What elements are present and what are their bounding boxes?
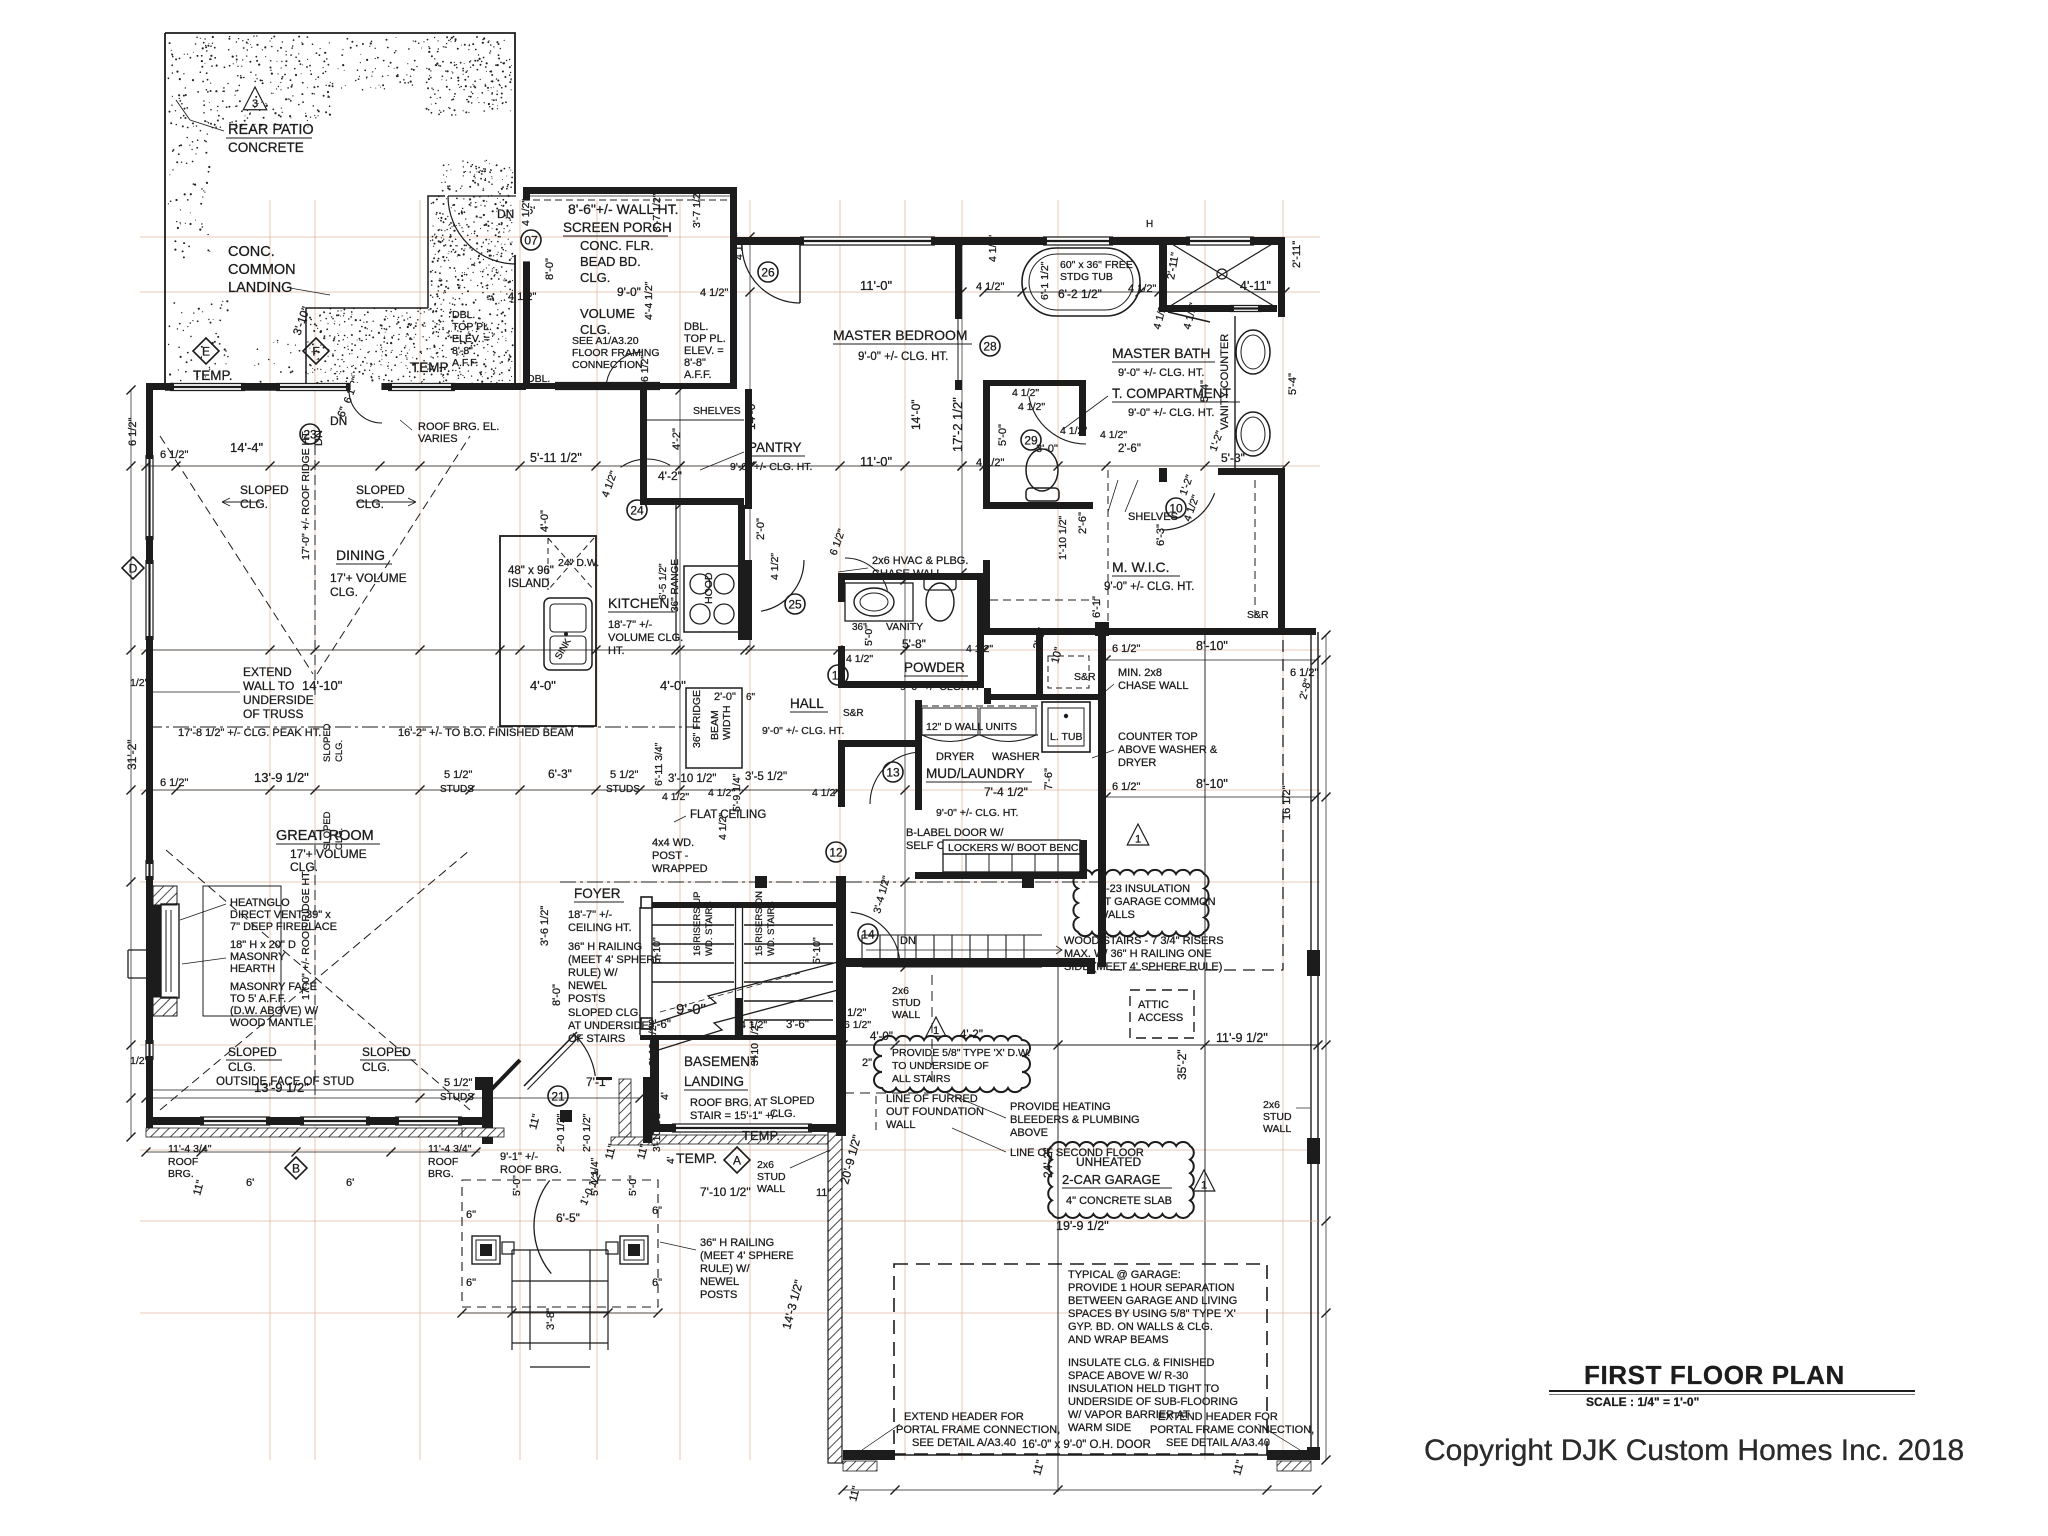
svg-text:3: 3 — [252, 98, 258, 110]
walls hall-powder — [838, 573, 984, 580]
svg-text:SLOPED: SLOPED — [770, 1095, 815, 1107]
svg-text:SLOPED CLG.: SLOPED CLG. — [568, 1007, 641, 1019]
svg-text:4 1/2": 4 1/2" — [966, 643, 993, 655]
porch posts — [472, 1236, 500, 1264]
svg-text:4 1/2": 4 1/2" — [987, 235, 999, 262]
svg-text:2'-11": 2'-11" — [1291, 241, 1303, 268]
svg-text:6": 6" — [652, 1205, 662, 1217]
door: hall to master — [761, 560, 804, 611]
wall: screen porch — [523, 187, 737, 194]
svg-text:4 1/2": 4 1/2" — [1012, 387, 1039, 399]
svg-text:6'-5 1/2": 6'-5 1/2" — [658, 563, 669, 600]
svg-text:F: F — [312, 345, 319, 359]
fixture: freestanding tub — [1022, 248, 1140, 316]
svg-text:16 1/2": 16 1/2" — [1281, 785, 1293, 820]
svg-text:HEATNGLO: HEATNGLO — [230, 897, 290, 909]
svg-text:11'-4 3/4": 11'-4 3/4" — [168, 1143, 212, 1155]
door 21 — [548, 1086, 568, 1106]
svg-text:WALLS: WALLS — [1098, 909, 1135, 921]
svg-text:4 1/2": 4 1/2" — [846, 653, 873, 665]
porch steps — [511, 1250, 513, 1350]
svg-text:18'-7" +/-: 18'-7" +/- — [608, 619, 653, 631]
svg-text:LOCKERS W/ BOOT BENCH: LOCKERS W/ BOOT BENCH — [948, 842, 1086, 854]
svg-text:RULE) W/: RULE) W/ — [700, 1263, 750, 1275]
svg-text:B-LABEL DOOR W/: B-LABEL DOOR W/ — [906, 827, 1004, 839]
svg-text:OF TRUSS: OF TRUSS — [243, 707, 303, 721]
svg-text:CLG.: CLG. — [770, 1108, 796, 1120]
svg-text:WARM SIDE: WARM SIDE — [1068, 1422, 1131, 1434]
svg-text:SPACE ABOVE W/ R-30: SPACE ABOVE W/ R-30 — [1068, 1370, 1188, 1382]
svg-text:WASHER: WASHER — [992, 751, 1040, 763]
svg-text:DN: DN — [900, 935, 916, 947]
svg-text:9'-0" +/- CLG. HT.: 9'-0" +/- CLG. HT. — [858, 351, 948, 363]
svg-text:DBL.: DBL. — [684, 321, 708, 333]
dashed furred foundation line — [875, 1096, 877, 1134]
svg-text:STAIR = 15'-1" +/-: STAIR = 15'-1" +/- — [690, 1110, 779, 1122]
garage construction verticals — [1057, 967, 1059, 1455]
svg-text:DBL.: DBL. — [527, 373, 550, 385]
svg-text:STUD: STUD — [892, 997, 921, 1009]
wall: right block top (8-10 step) — [1100, 628, 1316, 635]
hatched sill below front wall — [146, 1128, 491, 1137]
patio landing door arc — [448, 196, 516, 264]
shower door — [1168, 312, 1210, 322]
left vertical dim line — [130, 390, 132, 1137]
svg-text:11'-0": 11'-0" — [860, 454, 893, 469]
svg-text:36" FRIDGE: 36" FRIDGE — [691, 690, 703, 748]
svg-text:9'-0" +/- CLG. HT.: 9'-0" +/- CLG. HT. — [936, 807, 1018, 819]
svg-text:TEMP.: TEMP. — [411, 360, 451, 375]
misc ticks rows — [146, 789, 840, 791]
svg-text:8'-10": 8'-10" — [1196, 777, 1228, 791]
fixture: washer dryer + wall units — [921, 705, 1038, 707]
door powder — [845, 558, 888, 591]
svg-text:ROOF: ROOF — [168, 1156, 198, 1168]
svg-text:2x6: 2x6 — [1263, 1099, 1280, 1111]
svg-text:NEWEL: NEWEL — [700, 1276, 739, 1288]
svg-text:SEE A1/A3.20: SEE A1/A3.20 — [572, 335, 639, 347]
svg-text:L. TUB: L. TUB — [1050, 731, 1082, 743]
angled entry wall left — [489, 1060, 520, 1092]
svg-text:4'-4 1/2": 4'-4 1/2" — [643, 281, 655, 320]
svg-text:13'-9 1/2": 13'-9 1/2" — [254, 770, 309, 785]
porch dashed outline — [462, 1180, 658, 1307]
svg-text:3'-10 1/2": 3'-10 1/2" — [652, 1109, 663, 1152]
svg-text:HALL: HALL — [790, 696, 824, 711]
svg-text:NEWEL: NEWEL — [568, 980, 607, 992]
svg-text:2'-6": 2'-6" — [1118, 443, 1141, 455]
svg-text:OUT FOUNDATION: OUT FOUNDATION — [886, 1106, 984, 1118]
svg-text:3'-6": 3'-6" — [648, 1019, 671, 1031]
wall: bath south right — [1218, 468, 1285, 475]
svg-text:WOOD MANTLE: WOOD MANTLE — [230, 1017, 313, 1029]
svg-text:SLOPED: SLOPED — [362, 1045, 411, 1059]
svg-text:WALL: WALL — [1263, 1123, 1291, 1135]
svg-text:6': 6' — [246, 1177, 254, 1189]
svg-text:RULE) W/: RULE) W/ — [568, 967, 618, 979]
svg-text:DINING: DINING — [336, 547, 385, 563]
svg-text:1: 1 — [933, 1025, 939, 1037]
wall: MWIC east — [1278, 470, 1285, 635]
label: REAR PATIO / CONCRETE — [243, 87, 266, 110]
svg-text:28: 28 — [983, 340, 997, 354]
svg-text:6 1/2": 6 1/2" — [127, 418, 139, 446]
svg-text:VANITY COUNTER: VANITY COUNTER — [1219, 334, 1231, 430]
svg-text:PROVIDE 1 HOUR SEPARATION: PROVIDE 1 HOUR SEPARATION — [1068, 1282, 1235, 1294]
svg-text:WD. STAIRS: WD. STAIRS — [766, 901, 777, 956]
svg-text:MASONRY FACE: MASONRY FACE — [230, 981, 317, 993]
svg-text:WALL TO: WALL TO — [243, 679, 294, 693]
svg-text:S&R: S&R — [1074, 671, 1096, 683]
svg-text:35'-2": 35'-2" — [1175, 1049, 1189, 1080]
svg-text:POSTS: POSTS — [568, 993, 605, 1005]
svg-text:6": 6" — [652, 1277, 662, 1289]
svg-text:29: 29 — [1024, 434, 1038, 448]
svg-text:9'-0" +/- CLG. HT.: 9'-0" +/- CLG. HT. — [762, 725, 844, 737]
svg-text:4'-0": 4'-0" — [870, 1031, 893, 1043]
svg-text:6'-11 3/4": 6'-11 3/4" — [653, 742, 665, 786]
svg-text:14'-10": 14'-10" — [302, 678, 343, 693]
svg-text:1'-10 1/2": 1'-10 1/2" — [1057, 515, 1069, 560]
svg-text:9'-0" +/- CLG. HT.: 9'-0" +/- CLG. HT. — [1118, 367, 1204, 379]
fixture: powder toilet — [926, 583, 954, 621]
svg-text:48" x 96": 48" x 96" — [508, 565, 554, 577]
svg-text:T. COMPARTMENT: T. COMPARTMENT — [1112, 386, 1231, 401]
svg-text:6'-1 1/2": 6'-1 1/2" — [1039, 261, 1051, 300]
svg-text:16 RISERS UP: 16 RISERS UP — [692, 892, 703, 956]
svg-text:8'-0": 8'-0" — [551, 984, 563, 1006]
wall: garage south — [843, 1450, 895, 1460]
svg-text:SEE DETAIL A/A3.40: SEE DETAIL A/A3.40 — [1166, 1437, 1270, 1449]
svg-text:5 1/2": 5 1/2" — [838, 1007, 866, 1019]
svg-text:11: 11 — [832, 669, 845, 683]
walls pantry — [640, 389, 647, 505]
stair walls — [639, 907, 641, 1035]
door: dining to patio DN — [350, 383, 382, 390]
svg-text:DRYER: DRYER — [936, 751, 974, 763]
svg-text:1/2": 1/2" — [130, 677, 149, 689]
svg-text:6": 6" — [746, 692, 756, 703]
svg-text:6 1/2": 6 1/2" — [1112, 643, 1140, 655]
window bump left — [128, 950, 146, 978]
svg-text:FOYER: FOYER — [574, 886, 621, 901]
svg-text:GYP. BD. ON WALLS & CLG.: GYP. BD. ON WALLS & CLG. — [1068, 1321, 1213, 1333]
svg-text:REAR PATIO: REAR PATIO — [228, 122, 314, 138]
svg-text:4'-0": 4'-0" — [539, 510, 551, 532]
svg-text:M. W.I.C.: M. W.I.C. — [1112, 559, 1170, 575]
svg-text:1/2": 1/2" — [130, 1055, 149, 1067]
svg-text:2'-0": 2'-0" — [714, 691, 736, 703]
svg-text:CONCRETE: CONCRETE — [228, 140, 304, 155]
svg-text:SCALE : 1/4" = 1'-0": SCALE : 1/4" = 1'-0" — [1586, 1395, 1699, 1409]
fixture: laundry tub — [1042, 702, 1090, 752]
svg-text:16'-2" +/- TO B.O. FINISHED BE: 16'-2" +/- TO B.O. FINISHED BEAM — [398, 727, 574, 739]
svg-text:5'-3": 5'-3" — [1221, 451, 1245, 465]
wall: master west — [745, 389, 752, 509]
svg-text:CONC.: CONC. — [228, 244, 275, 260]
svg-text:E: E — [202, 345, 210, 359]
svg-text:LANDING: LANDING — [228, 280, 292, 296]
svg-text:PANTRY: PANTRY — [748, 440, 802, 455]
svg-text:BLEEDERS & PLUMBING: BLEEDERS & PLUMBING — [1010, 1114, 1140, 1126]
svg-text:5'-11 1/2": 5'-11 1/2" — [530, 451, 582, 465]
svg-text:4" CONCRETE SLAB: 4" CONCRETE SLAB — [1066, 1195, 1172, 1207]
fixture: toilet t-comp — [1026, 449, 1058, 491]
svg-text:B: B — [292, 1162, 300, 1176]
wall: master suite east upper — [1278, 237, 1285, 317]
right vertical dim line — [1325, 635, 1327, 1460]
svg-text:D: D — [129, 562, 138, 576]
svg-text:PORTAL FRAME CONNECTION,: PORTAL FRAME CONNECTION, — [896, 1424, 1060, 1436]
svg-text:POST -: POST - — [652, 850, 689, 862]
svg-text:EXTEND HEADER FOR: EXTEND HEADER FOR — [1158, 1411, 1278, 1423]
svg-text:6": 6" — [466, 1277, 476, 1289]
svg-text:DBL.: DBL. — [452, 309, 475, 321]
svg-text:AT GARAGE COMMON: AT GARAGE COMMON — [1098, 896, 1216, 908]
svg-text:WRAPPED: WRAPPED — [652, 863, 708, 875]
svg-text:WALL: WALL — [892, 1009, 920, 1021]
svg-text:17'-0" +/- ROOF RIDGE HT.: 17'-0" +/- ROOF RIDGE HT. — [300, 430, 312, 560]
svg-text:A.F.F.: A.F.F. — [684, 369, 712, 381]
landing step outline — [165, 196, 445, 390]
svg-text:CHASE WALL: CHASE WALL — [1118, 680, 1189, 692]
svg-text:5'-1 1/4": 5'-1 1/4" — [589, 1157, 601, 1196]
svg-text:MIN. 2x8: MIN. 2x8 — [1118, 667, 1162, 679]
svg-text:BRG.: BRG. — [428, 1168, 454, 1180]
svg-text:CLG.: CLG. — [330, 585, 358, 599]
svg-text:A.F.F.: A.F.F. — [452, 357, 478, 369]
wall: basement landing south — [652, 1124, 838, 1132]
svg-text:36" H RAILING: 36" H RAILING — [568, 941, 642, 953]
svg-text:AT UNDERSIDE: AT UNDERSIDE — [568, 1020, 649, 1032]
svg-text:2": 2" — [862, 1057, 872, 1069]
svg-text:TO UNDERSIDE OF: TO UNDERSIDE OF — [892, 1060, 989, 1072]
row 1098 ticks extra — [145, 1117, 147, 1137]
svg-text:07: 07 — [524, 234, 538, 248]
svg-text:4 1/2": 4 1/2" — [1018, 401, 1045, 413]
svg-text:ACCESS: ACCESS — [1138, 1012, 1183, 1024]
dim marks below garage door — [1057, 1455, 1059, 1492]
front door leaf — [524, 1032, 577, 1086]
svg-text:LINE OF FURRED: LINE OF FURRED — [886, 1093, 978, 1105]
door t-compartment — [1029, 396, 1086, 444]
door 10 to MWIC — [1166, 498, 1186, 518]
walls closet area right of powder — [984, 694, 1106, 700]
porch door arc — [534, 1180, 551, 1273]
svg-text:ROOF BRG. AT: ROOF BRG. AT — [690, 1097, 768, 1109]
wall: top-left exterior (dining north) — [146, 383, 526, 390]
wall: garage east — [1310, 632, 1312, 1460]
svg-text:12: 12 — [829, 846, 843, 860]
svg-text:2x6 HVAC & PLBG.: 2x6 HVAC & PLBG. — [872, 555, 968, 567]
svg-text:UNDERSIDE: UNDERSIDE — [243, 693, 314, 707]
svg-text:INSULATE CLG. & FINISHED: INSULATE CLG. & FINISHED — [1068, 1357, 1215, 1369]
svg-text:24" D.W.: 24" D.W. — [558, 557, 599, 569]
R-23 cloud — [1073, 870, 1208, 936]
svg-text:7'-1": 7'-1" — [586, 1075, 610, 1089]
svg-text:11'-4 3/4": 11'-4 3/4" — [428, 1143, 472, 1155]
svg-text:6'-3": 6'-3" — [1155, 524, 1167, 546]
svg-text:Copyright DJK Custom Homes Inc: Copyright DJK Custom Homes Inc. 2018 — [1424, 1434, 1964, 1467]
svg-text:POSTS: POSTS — [700, 1289, 737, 1301]
svg-text:WALL: WALL — [757, 1183, 785, 1195]
front door swing arc — [573, 1033, 595, 1076]
svg-text:4'-0": 4'-0" — [660, 678, 686, 693]
svg-text:5 1/2": 5 1/2" — [610, 769, 638, 781]
svg-text:4x4 WD.: 4x4 WD. — [652, 837, 694, 849]
svg-text:60" x 36" FREE: 60" x 36" FREE — [1060, 259, 1133, 271]
svg-text:6': 6' — [346, 1177, 354, 1189]
svg-text:11": 11" — [816, 1187, 831, 1199]
svg-text:SLOPED: SLOPED — [356, 483, 405, 497]
svg-text:1: 1 — [1201, 1180, 1207, 1192]
svg-text:CEILING HT.: CEILING HT. — [568, 922, 632, 934]
svg-text:SIDE (MEET 4' SPHERE RULE): SIDE (MEET 4' SPHERE RULE) — [1064, 961, 1222, 973]
wall: garage common west (mud side) — [1098, 635, 1106, 967]
svg-text:26: 26 — [761, 266, 775, 280]
wall: foyer south-west corner step — [475, 1077, 493, 1090]
svg-text:7" DEEP FIREPLACE: 7" DEEP FIREPLACE — [230, 921, 337, 933]
wall: mud-garage (south wall to garage) — [842, 958, 1095, 967]
T compartment walls — [983, 380, 990, 508]
svg-text:VARIES: VARIES — [418, 433, 458, 445]
fixture: lockers — [943, 840, 1080, 854]
grid diamond E — [193, 338, 219, 364]
svg-text:MASONRY: MASONRY — [230, 951, 286, 963]
svg-text:9'-0" +/- CLG. HT: 9'-0" +/- CLG. HT — [900, 681, 981, 693]
svg-text:14'-0": 14'-0" — [909, 399, 923, 430]
svg-text:WOOD STAIRS - 7 3/4" RISERS: WOOD STAIRS - 7 3/4" RISERS — [1064, 935, 1224, 947]
svg-text:(MEET 4' SPHERE: (MEET 4' SPHERE — [568, 954, 662, 966]
door pantry — [621, 459, 670, 467]
svg-text:7'-6": 7'-6" — [1043, 768, 1055, 790]
door DN to garage — [851, 912, 900, 961]
vert dim lines interior — [679, 390, 681, 790]
svg-text:36" H RAILING: 36" H RAILING — [700, 1237, 774, 1249]
svg-text:STUD: STUD — [1263, 1111, 1292, 1123]
svg-text:UNDERSIDE OF SUB-FLOORING: UNDERSIDE OF SUB-FLOORING — [1068, 1396, 1238, 1408]
svg-text:4'-2": 4'-2" — [658, 469, 682, 483]
svg-text:BEAD BD.: BEAD BD. — [580, 254, 641, 269]
svg-text:R-23 INSULATION: R-23 INSULATION — [1098, 883, 1190, 895]
svg-text:4 1/2": 4 1/2" — [520, 199, 532, 226]
svg-text:TEMP.: TEMP. — [676, 1150, 717, 1166]
svg-text:ISLAND: ISLAND — [508, 578, 550, 590]
svg-text:LINE OF SECOND FLOOR: LINE OF SECOND FLOOR — [1010, 1147, 1144, 1159]
svg-text:8'-10": 8'-10" — [1196, 639, 1228, 653]
roof ridge dashed + V valley dining — [314, 430, 316, 700]
fixture: island sink — [544, 598, 592, 670]
attic access — [1130, 990, 1194, 1038]
svg-text:SEE DETAIL A/A3.40: SEE DETAIL A/A3.40 — [912, 1437, 1016, 1449]
svg-text:ELEV. =: ELEV. = — [684, 345, 724, 357]
door: porch to master bedroom — [742, 245, 800, 303]
fixture: powder vanity+sink — [845, 583, 913, 621]
svg-text:LANDING: LANDING — [684, 1074, 744, 1089]
stair bottom wall — [640, 1035, 836, 1040]
svg-text:5 1/2": 5 1/2" — [444, 769, 472, 781]
windows left wall — [146, 455, 153, 540]
svg-text:(D.W. ABOVE) W/: (D.W. ABOVE) W/ — [230, 1005, 319, 1017]
screen porch inner sill — [523, 383, 737, 389]
svg-text:CONNECTION: CONNECTION — [572, 359, 643, 371]
svg-text:SHELVES: SHELVES — [693, 405, 741, 417]
svg-text:STUDS: STUDS — [440, 784, 474, 795]
svg-text:4': 4' — [659, 1092, 671, 1100]
svg-text:CONC. FLR.: CONC. FLR. — [580, 238, 654, 253]
wood stairs down (garage) — [861, 935, 863, 967]
dashed shelving MWIC — [1107, 470, 1109, 628]
svg-text:ELEV. =: ELEV. = — [452, 333, 490, 345]
construction grid lines (faint) — [140, 291, 1320, 293]
fixture: range + hood — [684, 566, 740, 632]
svg-text:2'-0": 2'-0" — [755, 518, 767, 540]
svg-text:BETWEEN GARAGE AND LIVING: BETWEEN GARAGE AND LIVING — [1068, 1295, 1237, 1307]
svg-text:MUD/LAUNDRY: MUD/LAUNDRY — [926, 766, 1025, 781]
svg-text:MASTER BATH: MASTER BATH — [1112, 345, 1211, 361]
stair newel squares — [641, 897, 652, 908]
walls mud/laundry — [984, 688, 991, 704]
svg-text:6": 6" — [466, 1209, 476, 1221]
svg-text:13'-9 1/2": 13'-9 1/2" — [254, 1080, 309, 1095]
svg-text:PROVIDE 5/8" TYPE 'X' D.W.: PROVIDE 5/8" TYPE 'X' D.W. — [892, 1047, 1030, 1059]
svg-text:AND WRAP BEAMS: AND WRAP BEAMS — [1068, 1334, 1169, 1346]
svg-text:CLG.: CLG. — [240, 497, 268, 511]
svg-text:5'-0": 5'-0" — [997, 424, 1009, 446]
svg-text:36" RANGE: 36" RANGE — [670, 559, 681, 612]
svg-text:5'-0": 5'-0" — [627, 1175, 639, 1196]
svg-text:BASEMENT: BASEMENT — [684, 1054, 758, 1069]
svg-text:2'-0 1/2": 2'-0 1/2" — [581, 1113, 593, 1152]
fixture: vanity counter + sinks — [1234, 316, 1236, 470]
walls mud south — [915, 872, 1087, 879]
svg-text:PORTAL FRAME CONNECTION,: PORTAL FRAME CONNECTION, — [1150, 1424, 1314, 1436]
svg-text:SLOPED: SLOPED — [322, 723, 333, 762]
provide 5/8 cloud — [874, 1036, 1030, 1092]
svg-text:CLG.: CLG. — [228, 1060, 256, 1074]
svg-text:A: A — [733, 1154, 741, 1168]
svg-text:3'-5 1/2": 3'-5 1/2" — [745, 771, 787, 783]
svg-text:SPACES BY USING 5/8" TYPE 'X': SPACES BY USING 5/8" TYPE 'X' — [1068, 1308, 1236, 1320]
svg-text:DN: DN — [497, 207, 514, 221]
svg-text:VOLUME: VOLUME — [580, 306, 635, 321]
svg-text:8'-8": 8'-8" — [452, 345, 473, 357]
patio stipple dots — [168, 35, 513, 387]
stair treads right run — [744, 924, 833, 926]
svg-text:5'-0": 5'-0" — [863, 625, 875, 646]
svg-text:S&R: S&R — [1247, 609, 1269, 621]
svg-text:3'-7 1/2": 3'-7 1/2" — [691, 189, 703, 228]
svg-text:9'-0" +/- CLG. HT.: 9'-0" +/- CLG. HT. — [1104, 581, 1194, 593]
wall: master/bath divider — [955, 237, 962, 319]
svg-text:4 1/2": 4 1/2" — [733, 233, 745, 260]
svg-text:19'-9 1/2": 19'-9 1/2" — [1056, 1219, 1109, 1233]
svg-text:PROVIDE HEATING: PROVIDE HEATING — [1010, 1101, 1111, 1113]
svg-text:2-CAR GARAGE: 2-CAR GARAGE — [1062, 1172, 1161, 1187]
svg-text:4 1/2": 4 1/2" — [700, 287, 728, 299]
svg-text:MAX. W/ 36" H RAILING ONE: MAX. W/ 36" H RAILING ONE — [1064, 948, 1212, 960]
svg-text:2'-6": 2'-6" — [1077, 512, 1089, 534]
window: wall below porch — [555, 383, 660, 390]
bottom-left dim line under wall — [146, 1151, 480, 1153]
svg-text:4'-2": 4'-2" — [960, 1029, 983, 1041]
svg-text:WIDTH: WIDTH — [721, 706, 733, 740]
svg-text:EXTEND HEADER FOR: EXTEND HEADER FOR — [904, 1411, 1024, 1423]
svg-text:6 1/2": 6 1/2" — [639, 355, 651, 382]
svg-text:12" D WALL UNITS: 12" D WALL UNITS — [926, 721, 1017, 733]
svg-text:TEMP.: TEMP. — [193, 368, 233, 383]
svg-text:3'-7 1/2": 3'-7 1/2" — [651, 193, 663, 232]
